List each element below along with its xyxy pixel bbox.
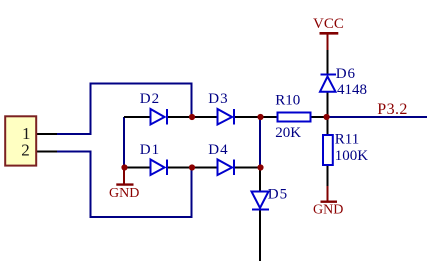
svg-text:4148: 4148 <box>337 82 367 98</box>
svg-text:D1: D1 <box>140 142 160 158</box>
svg-text:GND: GND <box>313 203 343 218</box>
svg-text:D3: D3 <box>208 91 228 107</box>
svg-text:P3.2: P3.2 <box>377 101 408 118</box>
svg-text:GND: GND <box>109 186 139 201</box>
svg-text:D4: D4 <box>208 142 228 158</box>
svg-text:R10: R10 <box>275 93 300 109</box>
svg-text:D6: D6 <box>336 66 356 82</box>
svg-text:100K: 100K <box>335 148 369 164</box>
svg-text:VCC: VCC <box>313 16 344 32</box>
svg-text:20K: 20K <box>275 125 301 141</box>
svg-text:2: 2 <box>21 141 30 160</box>
svg-text:R11: R11 <box>335 132 359 148</box>
svg-text:D2: D2 <box>140 91 160 107</box>
svg-text:D5: D5 <box>268 186 288 202</box>
